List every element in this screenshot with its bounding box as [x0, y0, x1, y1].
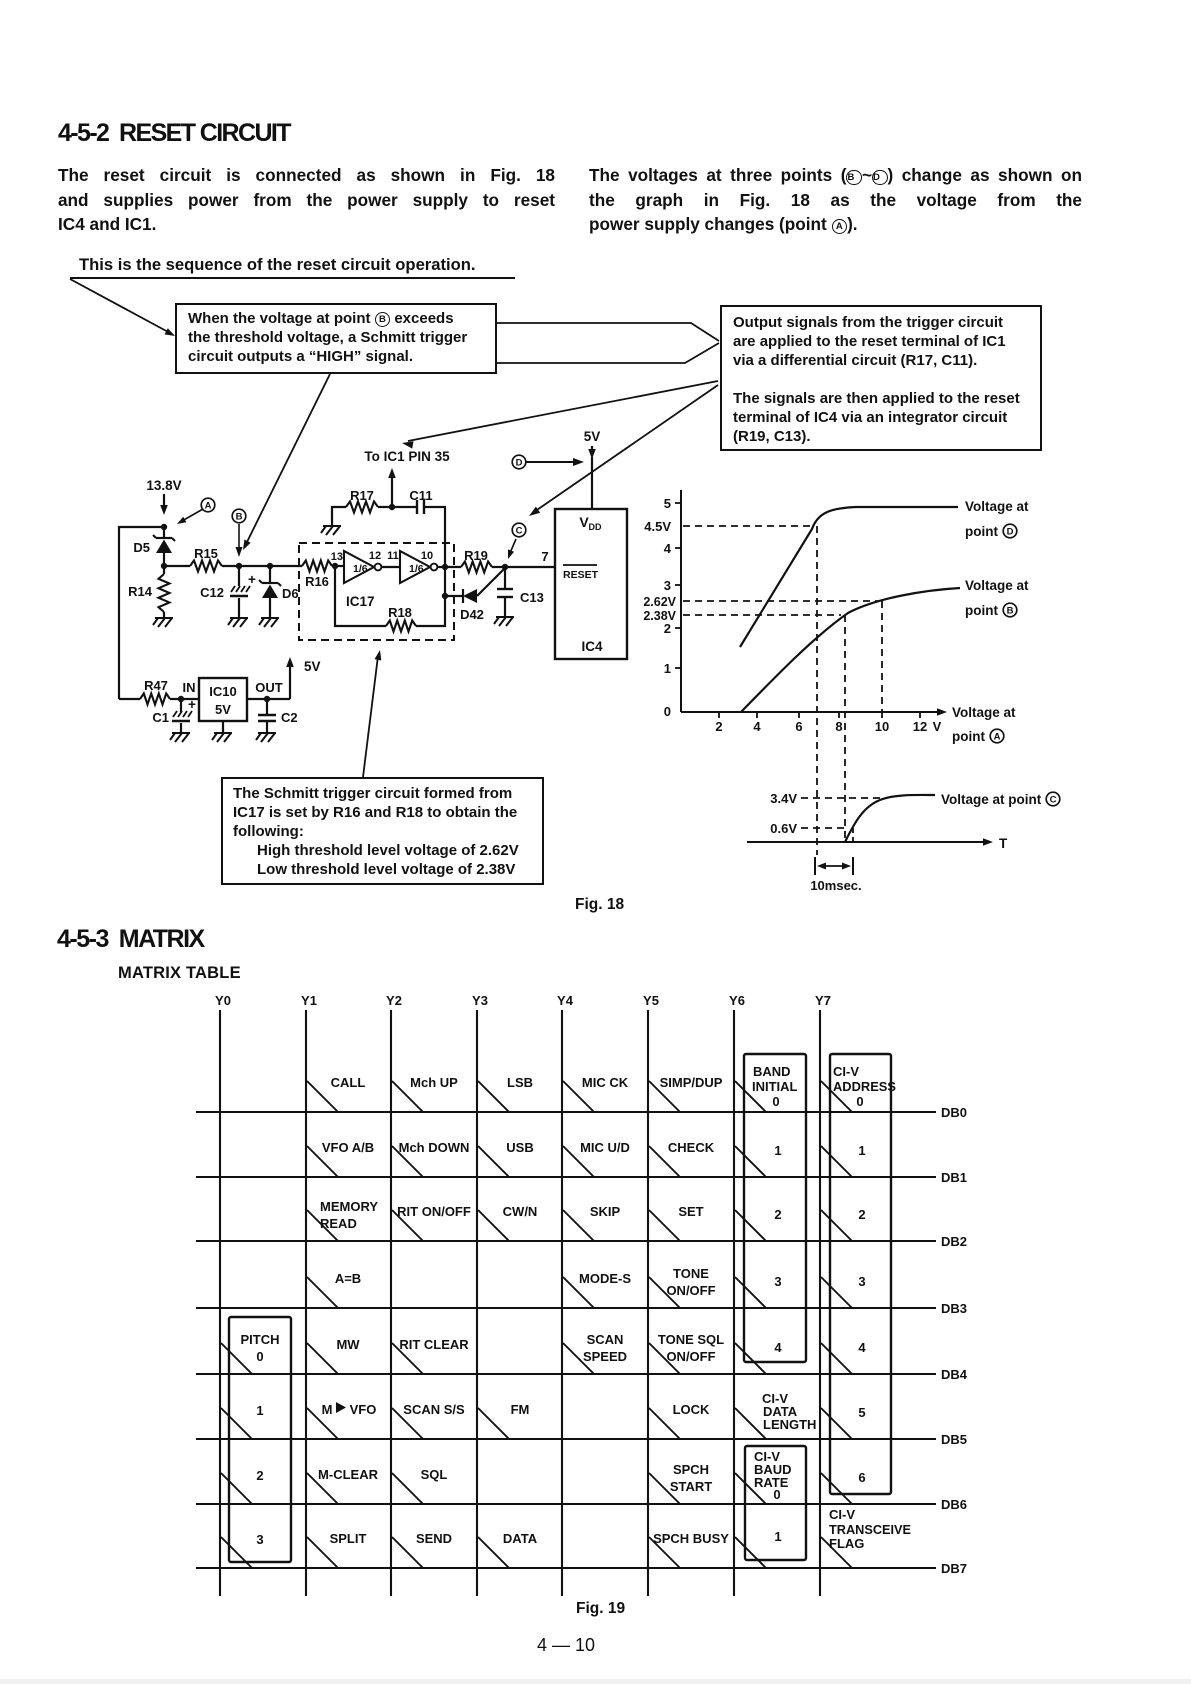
svg-text:C2: C2: [281, 710, 298, 725]
svg-text:MIC CK: MIC CK: [582, 1075, 629, 1090]
svg-text:2: 2: [858, 1207, 865, 1222]
svg-text:VFO A/B: VFO A/B: [322, 1140, 374, 1155]
svg-text:ADDRESS: ADDRESS: [833, 1079, 896, 1094]
callout output signals: [720, 305, 1042, 451]
svg-text:TRANSCEIVE: TRANSCEIVE: [829, 1522, 911, 1537]
svg-text:C11: C11: [409, 488, 432, 503]
svg-text:1/6: 1/6: [409, 563, 424, 575]
svg-text:Voltage at point: Voltage at point: [941, 792, 1042, 807]
svg-text:A=B: A=B: [335, 1271, 361, 1286]
svg-text:BAND: BAND: [753, 1064, 791, 1079]
net DB3: [196, 1307, 936, 1309]
svg-text:C12: C12: [200, 585, 224, 600]
svg-text:0: 0: [256, 1349, 263, 1364]
svg-text:SKIP: SKIP: [590, 1204, 621, 1219]
svg-text:Y2: Y2: [386, 993, 402, 1008]
ground below C1: [170, 733, 190, 742]
svg-text:13: 13: [331, 551, 343, 563]
svg-text:1: 1: [774, 1143, 781, 1158]
wire inverter output: [437, 566, 461, 568]
svg-text:DD: DD: [589, 522, 602, 532]
ground below IC10: [222, 721, 224, 733]
svg-text:M-CLEAR: M-CLEAR: [318, 1467, 379, 1482]
net Y2: [390, 1010, 392, 1596]
matrix contact diagonals row DB5: [221, 1408, 252, 1439]
box CI-V ADDRESS group: [830, 1054, 891, 1494]
matrix contact diagonals row DB3: [307, 1277, 338, 1308]
svg-text:D: D: [1007, 526, 1014, 537]
callout schmitt trigger thresholds: [221, 777, 544, 885]
svg-text:RIT ON/OFF: RIT ON/OFF: [397, 1204, 471, 1219]
svg-text:IC17: IC17: [346, 594, 375, 609]
ground below C12: [228, 618, 248, 627]
capacitor C2: [266, 699, 268, 715]
node D6 junction: [267, 563, 273, 569]
svg-text:D5: D5: [133, 540, 150, 555]
net Y6: [733, 1010, 735, 1596]
svg-text:C: C: [1050, 794, 1057, 805]
svg-text:SQL: SQL: [421, 1467, 448, 1482]
wire underline leader to callout: [70, 279, 170, 333]
net Y3: [476, 1010, 478, 1596]
wire leader left-callout to node B: [246, 374, 330, 544]
matrix contact diagonals row DB7: [221, 1537, 252, 1568]
svg-text:To IC1 PIN 35: To IC1 PIN 35: [364, 449, 450, 464]
node C2 junction: [264, 696, 270, 702]
svg-text:DB2: DB2: [941, 1234, 967, 1249]
graph y-axis: [680, 490, 682, 712]
ground at R17 left: [321, 526, 341, 535]
svg-text:VFO: VFO: [350, 1402, 377, 1417]
svg-text:point: point: [952, 729, 985, 744]
dashed guide 2.62V: [683, 600, 878, 602]
svg-text:10: 10: [875, 719, 889, 734]
svg-text:DB0: DB0: [941, 1105, 967, 1120]
graph x-axis voltage at point A: [681, 711, 940, 713]
svg-text:5V: 5V: [304, 659, 321, 674]
svg-text:SPCH BUSY: SPCH BUSY: [653, 1531, 729, 1546]
net DB4: [196, 1373, 936, 1375]
matrix contact diagonals row DB4: [221, 1343, 252, 1374]
heading 4-5-3: [57, 925, 204, 954]
wire C11 to output node: [424, 507, 445, 567]
resistor R17: [346, 502, 378, 513]
svg-text:3.4V: 3.4V: [770, 791, 797, 806]
svg-text:MW: MW: [336, 1337, 360, 1352]
svg-text:6: 6: [858, 1470, 865, 1485]
svg-text:Mch DOWN: Mch DOWN: [399, 1140, 470, 1155]
net Y0: [219, 1010, 221, 1596]
10msec dimension marks: [814, 857, 816, 875]
node C1/IN junction: [178, 696, 184, 702]
svg-text:6: 6: [795, 719, 802, 734]
svg-text:0: 0: [664, 704, 671, 719]
curve voltage at point D: [740, 507, 958, 647]
matrix contact diagonals row DB6: [221, 1473, 252, 1504]
svg-text:10: 10: [421, 550, 433, 562]
node R16/inverter junction: [332, 563, 338, 569]
svg-text:5V: 5V: [584, 429, 601, 444]
svg-text:5: 5: [664, 496, 671, 511]
svg-text:B: B: [236, 511, 243, 522]
node inverter output junction: [442, 564, 448, 570]
svg-text:RIT CLEAR: RIT CLEAR: [399, 1337, 469, 1352]
heading matrix table: [118, 964, 241, 983]
svg-text:R19: R19: [464, 548, 488, 563]
svg-text:Y7: Y7: [815, 993, 831, 1008]
svg-text:OUT: OUT: [255, 680, 283, 695]
svg-text:point: point: [965, 524, 998, 539]
svg-text:LSB: LSB: [507, 1075, 533, 1090]
svg-text:READ: READ: [320, 1216, 357, 1231]
svg-text:SPCH: SPCH: [673, 1462, 709, 1477]
wire R17 to C11 with node: [378, 506, 417, 508]
heading 4-5-2: [58, 119, 290, 148]
svg-text:FLAG: FLAG: [829, 1536, 864, 1551]
wire 5V riser: [289, 664, 291, 699]
wire OUT to 5V: [247, 698, 290, 700]
svg-text:DB3: DB3: [941, 1301, 967, 1316]
y-axis ticks and labels: [675, 502, 681, 504]
svg-text:DB4: DB4: [941, 1367, 968, 1382]
svg-text:1: 1: [774, 1529, 781, 1544]
svg-text:0: 0: [772, 1094, 779, 1109]
wire to IC1 pin 35 arrow: [391, 474, 393, 507]
svg-text:10msec.: 10msec.: [810, 878, 861, 893]
svg-text:Y6: Y6: [729, 993, 745, 1008]
curve voltage at point B: [741, 588, 960, 712]
svg-text:SET: SET: [678, 1204, 703, 1219]
caption Fig 19: [576, 1600, 625, 1618]
svg-text:4: 4: [774, 1340, 782, 1355]
svg-text:0: 0: [773, 1487, 780, 1502]
net DB0: [196, 1111, 936, 1113]
svg-text:1: 1: [256, 1403, 263, 1418]
resistor R16: [302, 561, 332, 572]
node C junction: [502, 564, 508, 570]
capacitor C11: [416, 500, 418, 514]
net Y7: [819, 1010, 821, 1596]
svg-text:RESET: RESET: [563, 569, 599, 581]
svg-text:3: 3: [858, 1274, 865, 1289]
svg-text:D: D: [516, 457, 523, 468]
callout when voltage exceeds: [175, 303, 497, 374]
svg-text:Voltage at: Voltage at: [965, 578, 1029, 593]
svg-text:TONE: TONE: [673, 1266, 709, 1281]
capacitor C1: [180, 699, 182, 712]
svg-text:SIMP/DUP: SIMP/DUP: [660, 1075, 723, 1090]
wire R19 to IC4 pin 7: [492, 566, 555, 568]
svg-text:2: 2: [664, 621, 671, 636]
svg-text:CI-V: CI-V: [833, 1064, 859, 1079]
matrix contact diagonals row DB1: [307, 1146, 338, 1177]
svg-text:4: 4: [753, 719, 761, 734]
diode D42: [445, 595, 463, 597]
svg-text:RATE: RATE: [754, 1475, 789, 1490]
ground below C2: [256, 733, 276, 742]
svg-text:USB: USB: [506, 1140, 533, 1155]
svg-text:2: 2: [256, 1468, 263, 1483]
label point B circled: [232, 509, 246, 523]
box CI-V BAUD RATE group: [745, 1446, 806, 1560]
wire ground to R17: [332, 507, 346, 526]
resistor R19: [461, 562, 492, 573]
node D5/R14/R15 junction: [161, 563, 167, 569]
capacitor C13: [504, 567, 506, 589]
ground below C13: [494, 617, 514, 626]
svg-text:START: START: [670, 1479, 712, 1494]
svg-text:D6: D6: [282, 586, 299, 601]
svg-text:SEND: SEND: [416, 1531, 452, 1546]
resistor R15: [164, 565, 190, 567]
svg-text:12: 12: [369, 550, 381, 562]
IC U10 regulator (IC10) box: [199, 678, 247, 721]
svg-text:Mch UP: Mch UP: [410, 1075, 458, 1090]
wire connector arrow between callouts top: [497, 323, 719, 341]
wire leader right-callout to node C: [534, 385, 718, 512]
caption Fig 18: [575, 896, 624, 914]
svg-text:IC10: IC10: [209, 684, 236, 699]
svg-text:MIC U/D: MIC U/D: [580, 1140, 630, 1155]
wire R15 to R16: [222, 565, 302, 567]
svg-text:R14: R14: [128, 584, 153, 599]
wire arrow from A to node: [182, 509, 203, 521]
svg-text:SPEED: SPEED: [583, 1349, 627, 1364]
svg-text:Y4: Y4: [557, 993, 574, 1008]
svg-text:ON/OFF: ON/OFF: [666, 1349, 715, 1364]
dashed guide 4.5V: [683, 525, 813, 527]
svg-text:Y3: Y3: [472, 993, 488, 1008]
svg-text:2: 2: [715, 719, 722, 734]
node B junction: [236, 563, 242, 569]
svg-text:IN: IN: [183, 680, 196, 695]
IC17 dashed box: [299, 543, 454, 640]
svg-text:DATA: DATA: [503, 1531, 538, 1546]
matrix contact diagonals row DB2: [307, 1210, 338, 1241]
svg-text:0.6V: 0.6V: [770, 821, 797, 836]
svg-text:C: C: [516, 525, 523, 536]
svg-text:R47: R47: [144, 678, 168, 693]
pin RESET with overline: [563, 564, 597, 566]
svg-text:A: A: [205, 500, 212, 511]
svg-text:4: 4: [664, 541, 672, 556]
svg-text:CI-V: CI-V: [829, 1507, 855, 1522]
node D42 branch junction: [442, 593, 448, 599]
svg-text:Voltage at: Voltage at: [952, 705, 1016, 720]
resistor R14: [163, 566, 165, 574]
net DB5: [196, 1438, 936, 1440]
x-axis ticks and labels: [718, 712, 720, 718]
net Y1: [305, 1010, 307, 1596]
dashed guide 2.38V: [683, 614, 841, 616]
svg-text:DB7: DB7: [941, 1561, 967, 1576]
paragraph right column: [589, 163, 1082, 237]
svg-text:C1: C1: [152, 710, 169, 725]
svg-text:1/6: 1/6: [353, 563, 368, 575]
wire 13.8V arrow down: [163, 494, 165, 508]
op-amp U1b inverter 1/6 IC17: [400, 551, 430, 583]
svg-text:3: 3: [664, 578, 671, 593]
paragraph left column: [58, 163, 555, 237]
resistor R47: [119, 698, 140, 700]
svg-text:4.5V: 4.5V: [644, 519, 671, 534]
node A junction: [161, 524, 167, 530]
wire arrow from D to 5V wire: [526, 461, 576, 463]
svg-text:DB1: DB1: [941, 1170, 967, 1185]
svg-text:C13: C13: [520, 590, 544, 605]
svg-text:B: B: [1007, 605, 1014, 616]
wire arrow from C to node: [510, 539, 516, 553]
svg-text:SPLIT: SPLIT: [330, 1531, 367, 1546]
svg-text:R16: R16: [305, 574, 329, 589]
svg-text:CALL: CALL: [331, 1075, 366, 1090]
svg-text:1: 1: [858, 1143, 865, 1158]
net Y4: [561, 1010, 563, 1596]
label point D circled: [512, 455, 526, 469]
net DB6: [196, 1503, 936, 1505]
svg-text:Y5: Y5: [643, 993, 659, 1008]
svg-text:2: 2: [774, 1207, 781, 1222]
svg-text:DB6: DB6: [941, 1497, 967, 1512]
svg-text:7: 7: [541, 549, 548, 564]
svg-text:CW/N: CW/N: [503, 1204, 538, 1219]
label point C circled: [512, 523, 526, 537]
T axis lower graph: [747, 841, 986, 843]
svg-text:LOCK: LOCK: [673, 1402, 710, 1417]
svg-text:CHECK: CHECK: [668, 1140, 715, 1155]
svg-text:Y0: Y0: [215, 993, 231, 1008]
IC U4 (IC4) box: [555, 509, 627, 659]
net DB1: [196, 1176, 936, 1178]
matrix contact diagonals row DB0: [307, 1081, 338, 1112]
net DB7: [196, 1567, 936, 1569]
diode D6 zener: [269, 566, 271, 583]
net DB2: [196, 1240, 936, 1242]
svg-text:2.62V: 2.62V: [643, 595, 676, 609]
svg-text:point: point: [965, 603, 998, 618]
svg-text:11: 11: [387, 550, 399, 562]
svg-text:V: V: [933, 719, 942, 734]
svg-text:5: 5: [858, 1405, 865, 1420]
svg-text:+: +: [188, 697, 196, 712]
svg-text:2.38V: 2.38V: [643, 609, 676, 623]
svg-text:13.8V: 13.8V: [146, 478, 181, 493]
svg-text:INITIAL: INITIAL: [752, 1079, 798, 1094]
svg-text:SCAN: SCAN: [587, 1332, 624, 1347]
svg-text:8: 8: [835, 719, 842, 734]
svg-text:R15: R15: [194, 546, 218, 561]
ground below R14: [153, 618, 173, 627]
svg-text:+: +: [248, 572, 256, 587]
wire between inverters: [381, 566, 400, 568]
svg-text:A: A: [994, 731, 1001, 742]
svg-text:4: 4: [858, 1340, 866, 1355]
svg-text:0: 0: [856, 1094, 863, 1109]
svg-text:1: 1: [664, 661, 671, 676]
ground below D6: [259, 618, 279, 627]
wire 5V to Vdd: [591, 457, 593, 509]
svg-text:D42: D42: [460, 607, 484, 622]
svg-text:PITCH: PITCH: [241, 1332, 280, 1347]
svg-text:3: 3: [774, 1274, 781, 1289]
resistor R18 feedback: [335, 566, 386, 626]
box BAND INITIAL group: [744, 1054, 806, 1362]
box PITCH group: [229, 1317, 291, 1562]
svg-text:T: T: [999, 836, 1008, 851]
svg-text:R17: R17: [350, 488, 374, 503]
diode D5 zener: [163, 527, 165, 538]
svg-text:ON/OFF: ON/OFF: [666, 1283, 715, 1298]
curve voltage at point C: [845, 795, 935, 842]
net Y5: [647, 1010, 649, 1596]
svg-text:MEMORY: MEMORY: [320, 1199, 378, 1214]
page number: [537, 1635, 595, 1656]
svg-text:LENGTH: LENGTH: [763, 1417, 816, 1432]
svg-text:M: M: [322, 1402, 333, 1417]
svg-text:3: 3: [256, 1532, 263, 1547]
svg-text:R18: R18: [388, 605, 412, 620]
svg-text:Voltage at: Voltage at: [965, 499, 1029, 514]
svg-text:12: 12: [913, 719, 927, 734]
wire left branch from node A: [119, 527, 164, 699]
svg-text:FM: FM: [511, 1402, 530, 1417]
wire leader right-callout to IC1 pin35 label: [408, 381, 718, 441]
sequence line: [79, 255, 476, 275]
op-amp U1a inverter 1/6 IC17: [344, 551, 374, 583]
svg-text:SCAN S/S: SCAN S/S: [403, 1402, 465, 1417]
wire leader schmitt-box to IC17 dashed box: [363, 656, 378, 777]
svg-text:IC4: IC4: [581, 639, 603, 654]
label point A circled: [201, 498, 215, 512]
wire arrow from B to node: [238, 524, 240, 550]
capacitor C12: [238, 566, 240, 586]
svg-text:Y1: Y1: [301, 993, 317, 1008]
wire connector arrow between callouts bottom: [497, 343, 719, 363]
svg-text:MODE-S: MODE-S: [579, 1271, 631, 1286]
svg-text:TONE SQL: TONE SQL: [658, 1332, 724, 1347]
svg-text:5V: 5V: [215, 702, 231, 717]
svg-text:DB5: DB5: [941, 1432, 967, 1447]
